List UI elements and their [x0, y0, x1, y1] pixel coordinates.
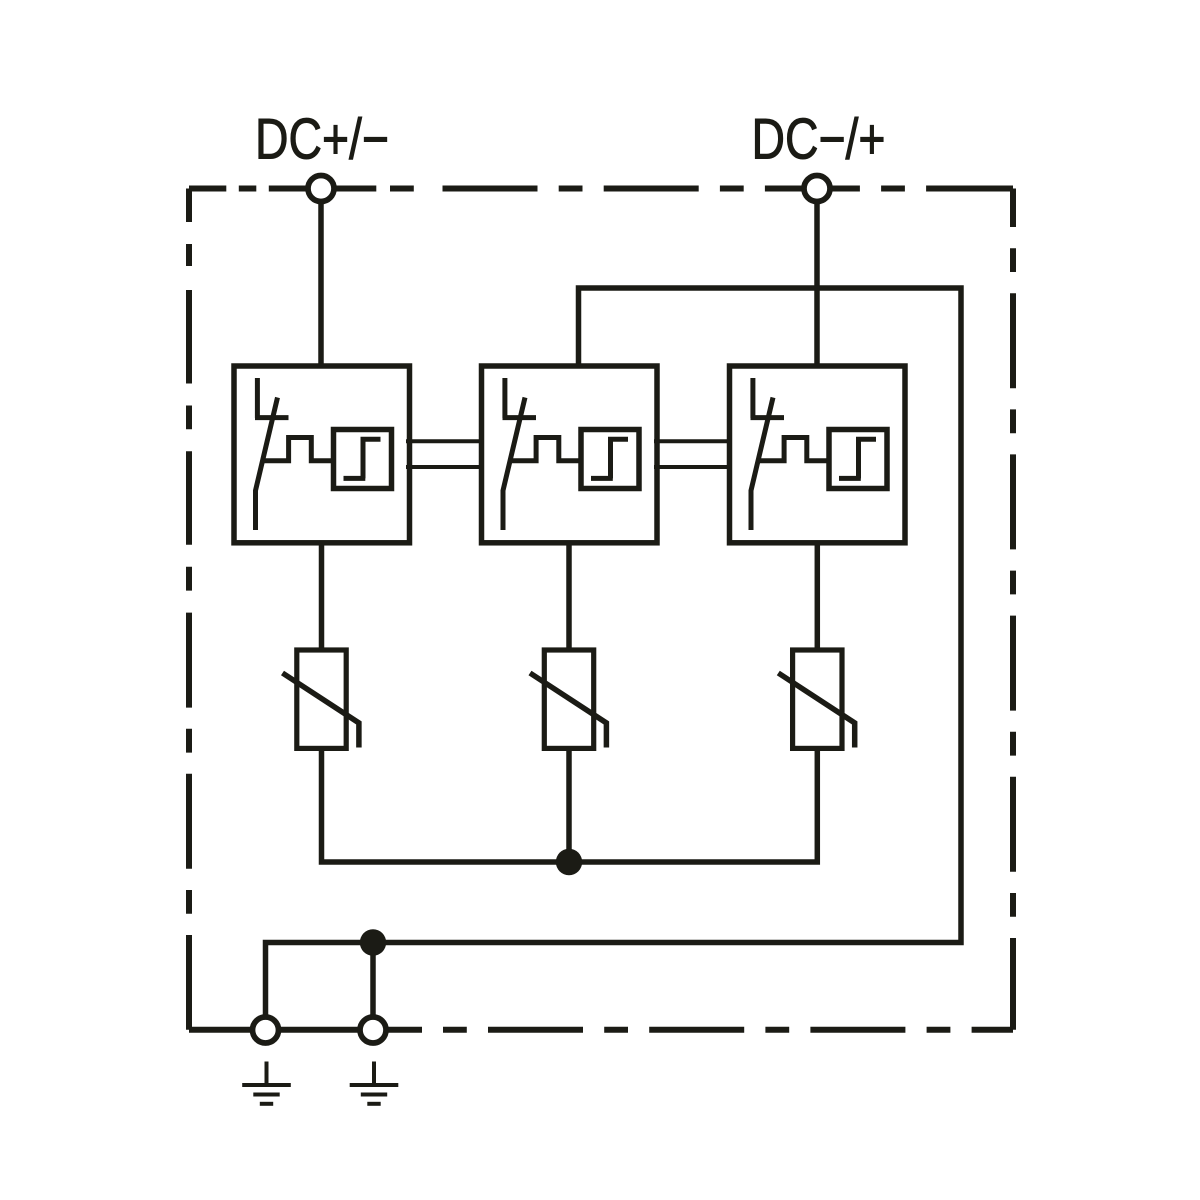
enclosure dash-dot border top [189, 186, 1013, 192]
terminal DC-/+ [804, 176, 830, 202]
wire: varistor 1 down, star bus, up to varistor 3 [322, 749, 818, 862]
terminal DC+/- [308, 176, 334, 202]
junction dot star point [556, 849, 582, 875]
junction dot earth bus [360, 929, 386, 955]
ground symbol 1 [242, 1062, 291, 1104]
enclosure dash-dot border bottom [189, 1027, 1013, 1033]
enclosure dash-dot border right [1010, 189, 1016, 1030]
varistor 3 [778, 650, 854, 748]
ground symbol 2 [350, 1062, 399, 1104]
disconnector block 1 [234, 366, 410, 543]
wire: block 2 riser, top run, right drop to earth bus, earth bus to terminal 1 [266, 288, 962, 1030]
disconnector block 2 [482, 366, 658, 543]
wire: stub pair block2-block3 [654, 441, 732, 467]
wire: block2 to varistor 2 [566, 543, 572, 650]
wire: stub pair block1-block2 [406, 441, 484, 467]
terminal earth 2 [360, 1017, 386, 1043]
enclosure dash-dot border left [186, 189, 192, 1030]
varistor 2 [530, 650, 606, 748]
disconnector block 3 [730, 366, 906, 543]
varistor 1 [283, 650, 359, 748]
wire: varistor 2 to star bus [566, 749, 572, 862]
wire: earth bus second drop to terminal 2 [370, 943, 376, 1031]
svg-text:DC+/−: DC+/− [255, 108, 389, 172]
wire: DC-/+ terminal to block 3 (crosses node line) [814, 190, 820, 366]
svg-text:DC−/+: DC−/+ [752, 108, 886, 172]
wire: block1 to varistor 1 [319, 543, 325, 650]
wire: DC+/- terminal to block 1 [318, 190, 324, 366]
wire: block3 to varistor 3 [815, 543, 821, 650]
terminal earth 1 [253, 1017, 279, 1043]
